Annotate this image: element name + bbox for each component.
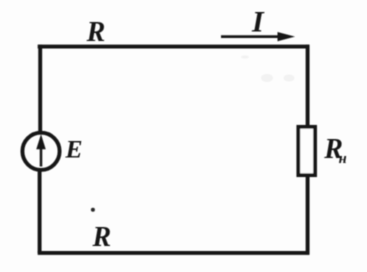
- wire right upper segment: [306, 45, 310, 127]
- wire left lower segment: [38, 171, 42, 253]
- EMF arrow inside source: [40, 147, 43, 167]
- faint scan smudges: [241, 55, 295, 82]
- dot above bottom R: [91, 208, 95, 212]
- wire right lower segment: [306, 176, 310, 255]
- svg-text:I: I: [251, 5, 265, 38]
- current arrow I: [221, 35, 280, 38]
- wire left upper segment: [38, 45, 42, 132]
- resistor Rн box: [298, 127, 315, 175]
- svg-text:R: R: [86, 17, 106, 48]
- EMF source E circle U1: [22, 133, 59, 170]
- svg-text:E: E: [65, 135, 83, 164]
- wire bottom: [38, 251, 310, 255]
- svg-text:R: R: [92, 222, 112, 253]
- wire top: [38, 45, 310, 49]
- svg-text:н: н: [339, 151, 347, 167]
